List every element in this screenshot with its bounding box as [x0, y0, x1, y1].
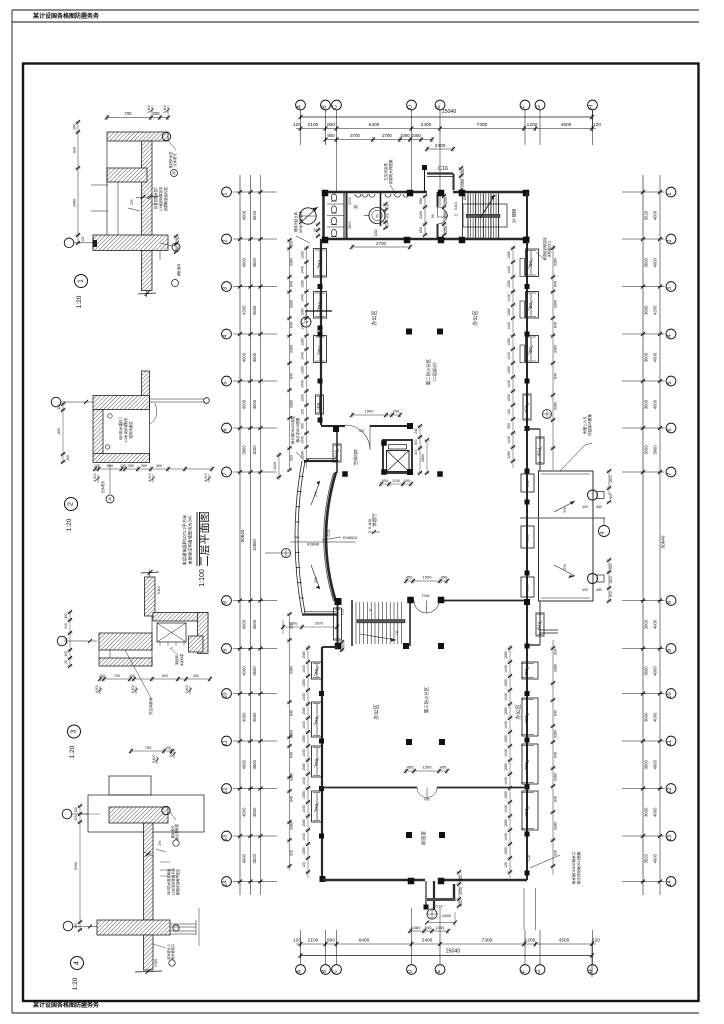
- svg-text:1980: 1980: [73, 199, 77, 207]
- sheet trim line top: [12, 9, 699, 11]
- plan bottom wall: [322, 879, 425, 882]
- svg-text:1580: 1580: [504, 679, 508, 687]
- svg-text:第二防火分区: 第二防火分区: [425, 358, 432, 385]
- detail 2 gutter east face: [149, 396, 151, 463]
- svg-text:1440: 1440: [301, 436, 305, 444]
- svg-text:详结施05图集: 详结施05图集: [587, 414, 592, 436]
- svg-text:650: 650: [382, 479, 388, 483]
- svg-text:1440: 1440: [504, 777, 508, 785]
- curtain wall slope marks 2%: [311, 481, 320, 505]
- svg-text:600: 600: [461, 169, 465, 175]
- svg-text:5.400: 5.400: [454, 202, 458, 211]
- svg-text:1580: 1580: [504, 847, 508, 855]
- svg-text:B: B: [322, 969, 328, 973]
- svg-text:700: 700: [145, 745, 152, 750]
- svg-text:3000: 3000: [252, 445, 257, 455]
- svg-text:1500: 1500: [423, 575, 433, 580]
- toilet stall partition column: [343, 192, 345, 240]
- svg-text:180: 180: [342, 643, 346, 648]
- detail 3 roof slab east: [153, 613, 208, 622]
- svg-text:二层平面图: 二层平面图: [198, 512, 211, 567]
- svg-text:3000: 3000: [644, 445, 649, 455]
- svg-text:1440: 1440: [302, 749, 306, 757]
- detail 1 top level flags: [151, 106, 153, 114]
- detail 3 main slab: [99, 633, 152, 650]
- toilet block south wall / grid line 2 wall: [322, 238, 527, 241]
- svg-text:ⅢI: ⅢI: [375, 214, 379, 217]
- svg-text:3360: 3360: [554, 345, 558, 353]
- svg-text:4000: 4000: [653, 619, 658, 629]
- detail 3 left dims: [69, 612, 71, 666]
- east wall lower column dots: [525, 469, 530, 474]
- door M6 dims: [406, 770, 447, 772]
- svg-text:1580: 1580: [504, 819, 508, 827]
- svg-text:3600: 3600: [252, 352, 257, 362]
- svg-text:4: 4: [74, 961, 81, 965]
- door FM1 arcs: [414, 601, 427, 614]
- svg-text:5460: 5460: [74, 862, 78, 870]
- svg-text:4000: 4000: [653, 807, 658, 817]
- svg-text:300: 300: [141, 464, 147, 468]
- stair 2 west boundary: [462, 192, 464, 239]
- svg-text:1580: 1580: [302, 651, 306, 659]
- svg-text:3360: 3360: [290, 666, 294, 674]
- svg-text:1280: 1280: [301, 338, 305, 346]
- svg-text:480: 480: [596, 588, 602, 592]
- svg-text:1440: 1440: [302, 805, 306, 813]
- svg-text:3360: 3360: [290, 773, 294, 781]
- svg-text:3380: 3380: [554, 402, 558, 410]
- circled mark near C9 east: [543, 410, 552, 419]
- svg-text:满帖面砖: 满帖面砖: [176, 263, 181, 277]
- svg-text:8: 8: [223, 601, 229, 604]
- atrium inner thick curved wall: [326, 472, 336, 602]
- svg-text:雨水管接口: 雨水管接口: [170, 944, 175, 960]
- svg-text:4500: 4500: [559, 938, 570, 944]
- svg-text:900: 900: [327, 133, 335, 138]
- entrance bottom wall: [427, 898, 456, 901]
- svg-text:3900: 3900: [653, 445, 658, 455]
- svg-text:1580: 1580: [302, 847, 306, 855]
- stair 2 direction arrow: [480, 195, 495, 218]
- svg-text:1280: 1280: [507, 280, 511, 288]
- urinals men room: [355, 194, 361, 197]
- svg-text:450: 450: [406, 575, 413, 580]
- svg-text:本层除注明者墙厚均为240: 本层除注明者墙厚均为240: [187, 515, 194, 565]
- east porch bay outline: [539, 471, 594, 601]
- svg-text:2x0: 2x0: [414, 449, 418, 455]
- detail 1 coping band: [107, 168, 147, 182]
- detail 3 level flags: [99, 686, 101, 694]
- svg-text:120: 120: [507, 409, 511, 415]
- svg-text:防尘网卷材: 防尘网卷材: [148, 697, 153, 715]
- detail 2 bubble: [65, 498, 78, 511]
- detail 4 bubble: [71, 957, 84, 970]
- stair 1 treads: [355, 602, 357, 644]
- stair 2 handrail bar: [466, 214, 500, 217]
- detail 2 bottom dim line: [95, 468, 212, 470]
- detail 3 lower band: [99, 658, 152, 666]
- svg-text:3520: 3520: [252, 210, 257, 220]
- svg-text:3600: 3600: [252, 807, 257, 817]
- svg-text:办公区: 办公区: [514, 704, 522, 720]
- svg-text:100: 100: [99, 674, 105, 678]
- porch slope arrows: [554, 501, 575, 512]
- svg-text:雨水管DN100雨水口: 雨水管DN100雨水口: [571, 851, 576, 884]
- svg-text:3360: 3360: [290, 258, 294, 266]
- svg-text:3380: 3380: [554, 664, 558, 672]
- plan title underline: [196, 512, 198, 566]
- detail 3 parapet wall: [145, 577, 156, 616]
- svg-text:1440: 1440: [301, 294, 305, 302]
- svg-text:5.400: 5.400: [163, 105, 167, 114]
- svg-text:E: E: [436, 969, 442, 973]
- svg-text:2100: 2100: [308, 122, 319, 128]
- C16 jamb dims: [460, 168, 462, 190]
- svg-text:水泥砂浆: 水泥砂浆: [179, 653, 184, 667]
- svg-text:300: 300: [153, 111, 161, 116]
- detail 2 left dims: [62, 404, 64, 462]
- svg-text:3520: 3520: [644, 853, 649, 863]
- svg-text:1440: 1440: [301, 380, 305, 388]
- east canopy stub: [539, 629, 558, 631]
- svg-text:1:100: 1:100: [199, 569, 206, 587]
- east C14 window upper: [539, 429, 541, 471]
- svg-text:1000: 1000: [365, 409, 375, 414]
- svg-text:640: 640: [290, 796, 294, 802]
- svg-text:3380: 3380: [290, 400, 294, 408]
- svg-text:做法详西南05J1图集: 做法详西南05J1图集: [576, 851, 581, 884]
- detail 2 gutter bottom slab: [93, 454, 150, 463]
- svg-text:4000: 4000: [653, 210, 658, 220]
- svg-text:5.400: 5.400: [185, 685, 189, 694]
- sheet outer trim line left: [11, 10, 13, 1013]
- svg-text:4500: 4500: [561, 122, 572, 128]
- southeast leader note rainpipe: [530, 855, 560, 868]
- urinals second room: [385, 194, 391, 197]
- svg-text:4000: 4000: [242, 257, 247, 267]
- svg-text:120: 120: [74, 923, 78, 929]
- svg-text:320: 320: [290, 241, 294, 247]
- svg-text:钢丝网: 钢丝网: [174, 655, 179, 665]
- svg-text:墙顶培训相连接: 墙顶培训相连接: [542, 237, 547, 261]
- svg-text:9: 9: [667, 649, 673, 652]
- svg-text:1280: 1280: [507, 251, 511, 259]
- svg-text:墙体为粘土砖: 墙体为粘土砖: [293, 211, 298, 232]
- svg-text:14: 14: [667, 880, 673, 886]
- atrium outer glazing curve: [295, 461, 302, 613]
- svg-text:阅览室: 阅览室: [420, 831, 427, 845]
- svg-text:120: 120: [176, 237, 180, 243]
- svg-text:1500: 1500: [444, 211, 448, 219]
- svg-text:1040: 1040: [436, 925, 446, 930]
- svg-text:C10: C10: [317, 301, 322, 309]
- svg-text:100: 100: [94, 464, 100, 468]
- svg-text:2%: 2%: [562, 564, 567, 570]
- svg-text:1280: 1280: [507, 308, 511, 316]
- detail 1 right small dims: [175, 236, 177, 252]
- svg-text:3: 3: [71, 729, 78, 733]
- svg-text:A: A: [297, 105, 303, 109]
- west wall lower column dots: [319, 691, 324, 696]
- porch grid line: [520, 517, 605, 519]
- svg-text:120: 120: [302, 862, 306, 868]
- svg-text:4200: 4200: [242, 305, 247, 315]
- window bay C16 east jamb: [453, 174, 455, 191]
- detail 3 bottom dim line: [100, 678, 210, 680]
- svg-text:650: 650: [609, 493, 613, 499]
- svg-text:4.500: 4.500: [93, 473, 97, 482]
- svg-text:3600: 3600: [252, 759, 257, 769]
- bottom dimension total line: [301, 955, 593, 957]
- svg-text:3700: 3700: [350, 133, 360, 138]
- left inner window dim chain upper: [306, 246, 308, 468]
- svg-text:结构找坡层: 结构找坡层: [128, 421, 133, 439]
- svg-text:3360: 3360: [290, 730, 294, 738]
- bottom entrance dims: [410, 930, 448, 932]
- detail 1 grid bubble: [64, 238, 74, 248]
- svg-text:1080: 1080: [400, 133, 410, 138]
- svg-text:320: 320: [554, 649, 558, 655]
- svg-text:C16: C16: [438, 166, 448, 172]
- svg-text:640: 640: [554, 281, 558, 287]
- elevator dims bottom: [381, 483, 411, 485]
- svg-text:5.400: 5.400: [152, 755, 156, 764]
- east wall with windows upper: [526, 192, 528, 471]
- svg-text:100: 100: [129, 674, 135, 678]
- bottom grid bubbles A-H: [296, 965, 306, 975]
- svg-text:1580: 1580: [302, 679, 306, 687]
- svg-text:50640: 50640: [661, 535, 666, 548]
- svg-text:1600: 1600: [609, 576, 613, 584]
- svg-text:1250: 1250: [444, 226, 448, 234]
- svg-text:3360: 3360: [554, 300, 558, 308]
- svg-text:2000: 2000: [348, 197, 352, 205]
- detail 3 east block: [189, 636, 204, 652]
- detail 1 leader top right: [168, 140, 176, 150]
- svg-text:3520: 3520: [644, 210, 649, 220]
- door M6 arcs: [417, 788, 427, 798]
- svg-text:M: M: [431, 214, 435, 217]
- svg-text:SES防水卷材: SES防水卷材: [118, 419, 123, 440]
- svg-text:上: 上: [453, 213, 458, 217]
- svg-text:3600: 3600: [644, 712, 649, 722]
- entrance level symbol: [427, 909, 437, 919]
- svg-text:某计设国各格图防腥务务: 某计设国各格图防腥务务: [33, 12, 100, 20]
- svg-text:4: 4: [600, 531, 606, 534]
- svg-text:14: 14: [223, 880, 229, 886]
- section mark 2 on west wall: [305, 310, 332, 312]
- svg-text:3900: 3900: [242, 445, 247, 455]
- toilet block west wall: [322, 192, 325, 240]
- svg-text:H: H: [589, 969, 595, 973]
- lobby double door M: [437, 192, 439, 207]
- west wall small window C9: [316, 395, 324, 414]
- svg-text:1580: 1580: [302, 791, 306, 799]
- svg-text:1440: 1440: [507, 322, 511, 330]
- svg-text:2%: 2%: [313, 577, 318, 583]
- svg-text:C9: C9: [526, 855, 531, 861]
- detail 1 slab end block: [93, 240, 98, 247]
- east wall windows facing porch: [521, 474, 534, 492]
- office area partition lower: [320, 787, 417, 789]
- hall level note 5.400: [368, 531, 380, 533]
- svg-text:3380: 3380: [290, 822, 294, 830]
- svg-text:640: 640: [554, 752, 558, 758]
- svg-text:1:20: 1:20: [76, 295, 83, 308]
- svg-text:640: 640: [554, 373, 558, 379]
- svg-text:450: 450: [441, 575, 448, 580]
- svg-text:1440: 1440: [504, 805, 508, 813]
- grid6 wall segment: [322, 646, 338, 648]
- west wall lower with windows: [321, 647, 323, 880]
- svg-text:5.400: 5.400: [169, 749, 173, 758]
- east bay north wall: [527, 428, 540, 430]
- svg-text:泛水收头: 泛水收头: [172, 153, 177, 167]
- window bay C16 west jamb: [424, 167, 426, 192]
- svg-text:100: 100: [120, 464, 126, 468]
- curve center mark: [282, 549, 291, 558]
- svg-text:（二层部分）: （二层部分）: [431, 360, 437, 384]
- svg-text:650: 650: [404, 479, 410, 483]
- svg-text:1580: 1580: [302, 735, 306, 743]
- svg-text:1280: 1280: [301, 451, 305, 459]
- svg-text:320: 320: [74, 815, 78, 821]
- detail 2 grid bubble: [51, 397, 61, 407]
- svg-text:1580: 1580: [504, 651, 508, 659]
- svg-text:1: 1: [667, 192, 673, 195]
- detail 1 drip circle: [162, 132, 170, 140]
- toilet WC fixtures: [331, 194, 336, 201]
- svg-text:100: 100: [74, 807, 78, 813]
- svg-text:120: 120: [301, 409, 305, 415]
- detail 1 wall tick marks: [136, 197, 158, 198]
- sheet trim line top 2: [12, 21, 699, 23]
- svg-text:R18624: R18624: [343, 535, 358, 540]
- svg-text:1280: 1280: [301, 366, 305, 374]
- svg-text:640: 640: [290, 710, 294, 716]
- svg-text:1440: 1440: [301, 266, 305, 274]
- svg-text:120: 120: [81, 236, 85, 242]
- svg-text:7300: 7300: [477, 122, 488, 128]
- svg-text:C16: C16: [436, 905, 443, 909]
- svg-text:M5水泥砂浆砖: M5水泥砂浆砖: [298, 211, 303, 233]
- detail 1 parapet wall: [142, 141, 153, 235]
- round wash basin: [369, 208, 385, 224]
- svg-text:3600: 3600: [644, 807, 649, 817]
- curve mid radius line: [290, 541, 356, 543]
- svg-text:640: 640: [290, 322, 294, 328]
- detail 1 left face ticks: [91, 184, 108, 186]
- svg-text:640: 640: [290, 281, 294, 287]
- svg-text:3360: 3360: [554, 730, 558, 738]
- porch section bubble 4: [599, 526, 610, 537]
- svg-text:2700: 2700: [376, 241, 387, 246]
- svg-text:1440: 1440: [302, 777, 306, 785]
- svg-text:1440: 1440: [504, 693, 508, 701]
- corridor dims: [424, 196, 426, 235]
- detail 4 wall below: [144, 935, 154, 970]
- bottom dimension grid line: [296, 943, 596, 945]
- svg-text:1200: 1200: [525, 938, 536, 944]
- svg-text:4000: 4000: [242, 853, 247, 863]
- svg-text:1440: 1440: [302, 833, 306, 841]
- svg-text:50640: 50640: [240, 529, 245, 542]
- detail 1 top slab: [107, 132, 168, 141]
- svg-text:400: 400: [156, 464, 162, 468]
- stair 1 arrow: [360, 634, 396, 640]
- dim 1320 left of curve: [278, 452, 280, 480]
- detail 1 left dims: [77, 122, 79, 243]
- detail 2 eaves lines right: [150, 398, 205, 400]
- detail 3 beam ticks: [159, 642, 161, 646]
- top dimension 2400 line: [427, 148, 453, 150]
- svg-text:6400: 6400: [369, 122, 380, 128]
- svg-text:1440: 1440: [301, 352, 305, 360]
- detail 4 outer box: [88, 795, 204, 832]
- svg-text:找平层防水层: 找平层防水层: [153, 188, 158, 209]
- svg-text:120: 120: [386, 204, 390, 209]
- svg-text:1: 1: [78, 279, 85, 283]
- svg-text:10: 10: [667, 692, 673, 698]
- detail 2 leader circled note: [109, 465, 111, 494]
- svg-text:3360: 3360: [554, 773, 558, 781]
- svg-text:2# 楼梯: 2# 楼梯: [511, 209, 518, 223]
- svg-text:4000: 4000: [653, 759, 658, 769]
- svg-text:20: 20: [64, 660, 68, 664]
- svg-text:C: C: [333, 105, 339, 109]
- svg-text:卫生间洁具: 卫生间洁具: [383, 163, 388, 181]
- detail 2 level flags: [97, 475, 99, 483]
- svg-text:1580: 1580: [504, 735, 508, 743]
- svg-text:1:20: 1:20: [72, 977, 79, 990]
- svg-text:640: 640: [554, 710, 558, 716]
- svg-text:1280: 1280: [507, 366, 511, 374]
- svg-text:4000: 4000: [653, 853, 658, 863]
- svg-text:1100: 1100: [392, 479, 400, 483]
- left grid bubbles 1-14: [222, 187, 232, 197]
- svg-text:钢筋砖缝堵严密实: 钢筋砖缝堵严密实: [175, 868, 180, 895]
- detail 1 wall below: [142, 251, 153, 291]
- svg-text:8: 8: [667, 601, 673, 604]
- svg-text:M6: M6: [424, 798, 429, 802]
- svg-text:2700: 2700: [382, 133, 392, 138]
- svg-text:详西南05J1: 详西南05J1: [547, 240, 552, 257]
- svg-text:1200: 1200: [374, 229, 378, 236]
- svg-text:7: 7: [667, 472, 673, 475]
- svg-text:3: 3: [223, 287, 229, 290]
- elevator car: [387, 451, 410, 472]
- svg-text:B: B: [322, 105, 328, 109]
- svg-text:3600: 3600: [252, 399, 257, 409]
- svg-text:4.500: 4.500: [148, 473, 152, 482]
- svg-text:80: 80: [176, 246, 180, 250]
- svg-text:1580: 1580: [302, 707, 306, 715]
- svg-text:400: 400: [582, 505, 588, 509]
- svg-text:详建筑大样图集: 详建筑大样图集: [388, 159, 393, 185]
- svg-text:1200: 1200: [507, 394, 511, 402]
- svg-text:1280: 1280: [301, 251, 305, 259]
- svg-text:650: 650: [419, 227, 423, 233]
- svg-text:第三防火分区: 第三防火分区: [423, 686, 430, 713]
- svg-text:(730): (730): [289, 622, 297, 626]
- detail 4 upper box: [109, 776, 151, 795]
- svg-text:3600: 3600: [252, 257, 257, 267]
- fire door FM1 wall and opening: [412, 600, 414, 602]
- svg-text:120: 120: [592, 938, 600, 944]
- svg-text:聚合物砂浆: 聚合物砂浆: [174, 823, 179, 840]
- svg-text:5.400: 5.400: [147, 105, 151, 114]
